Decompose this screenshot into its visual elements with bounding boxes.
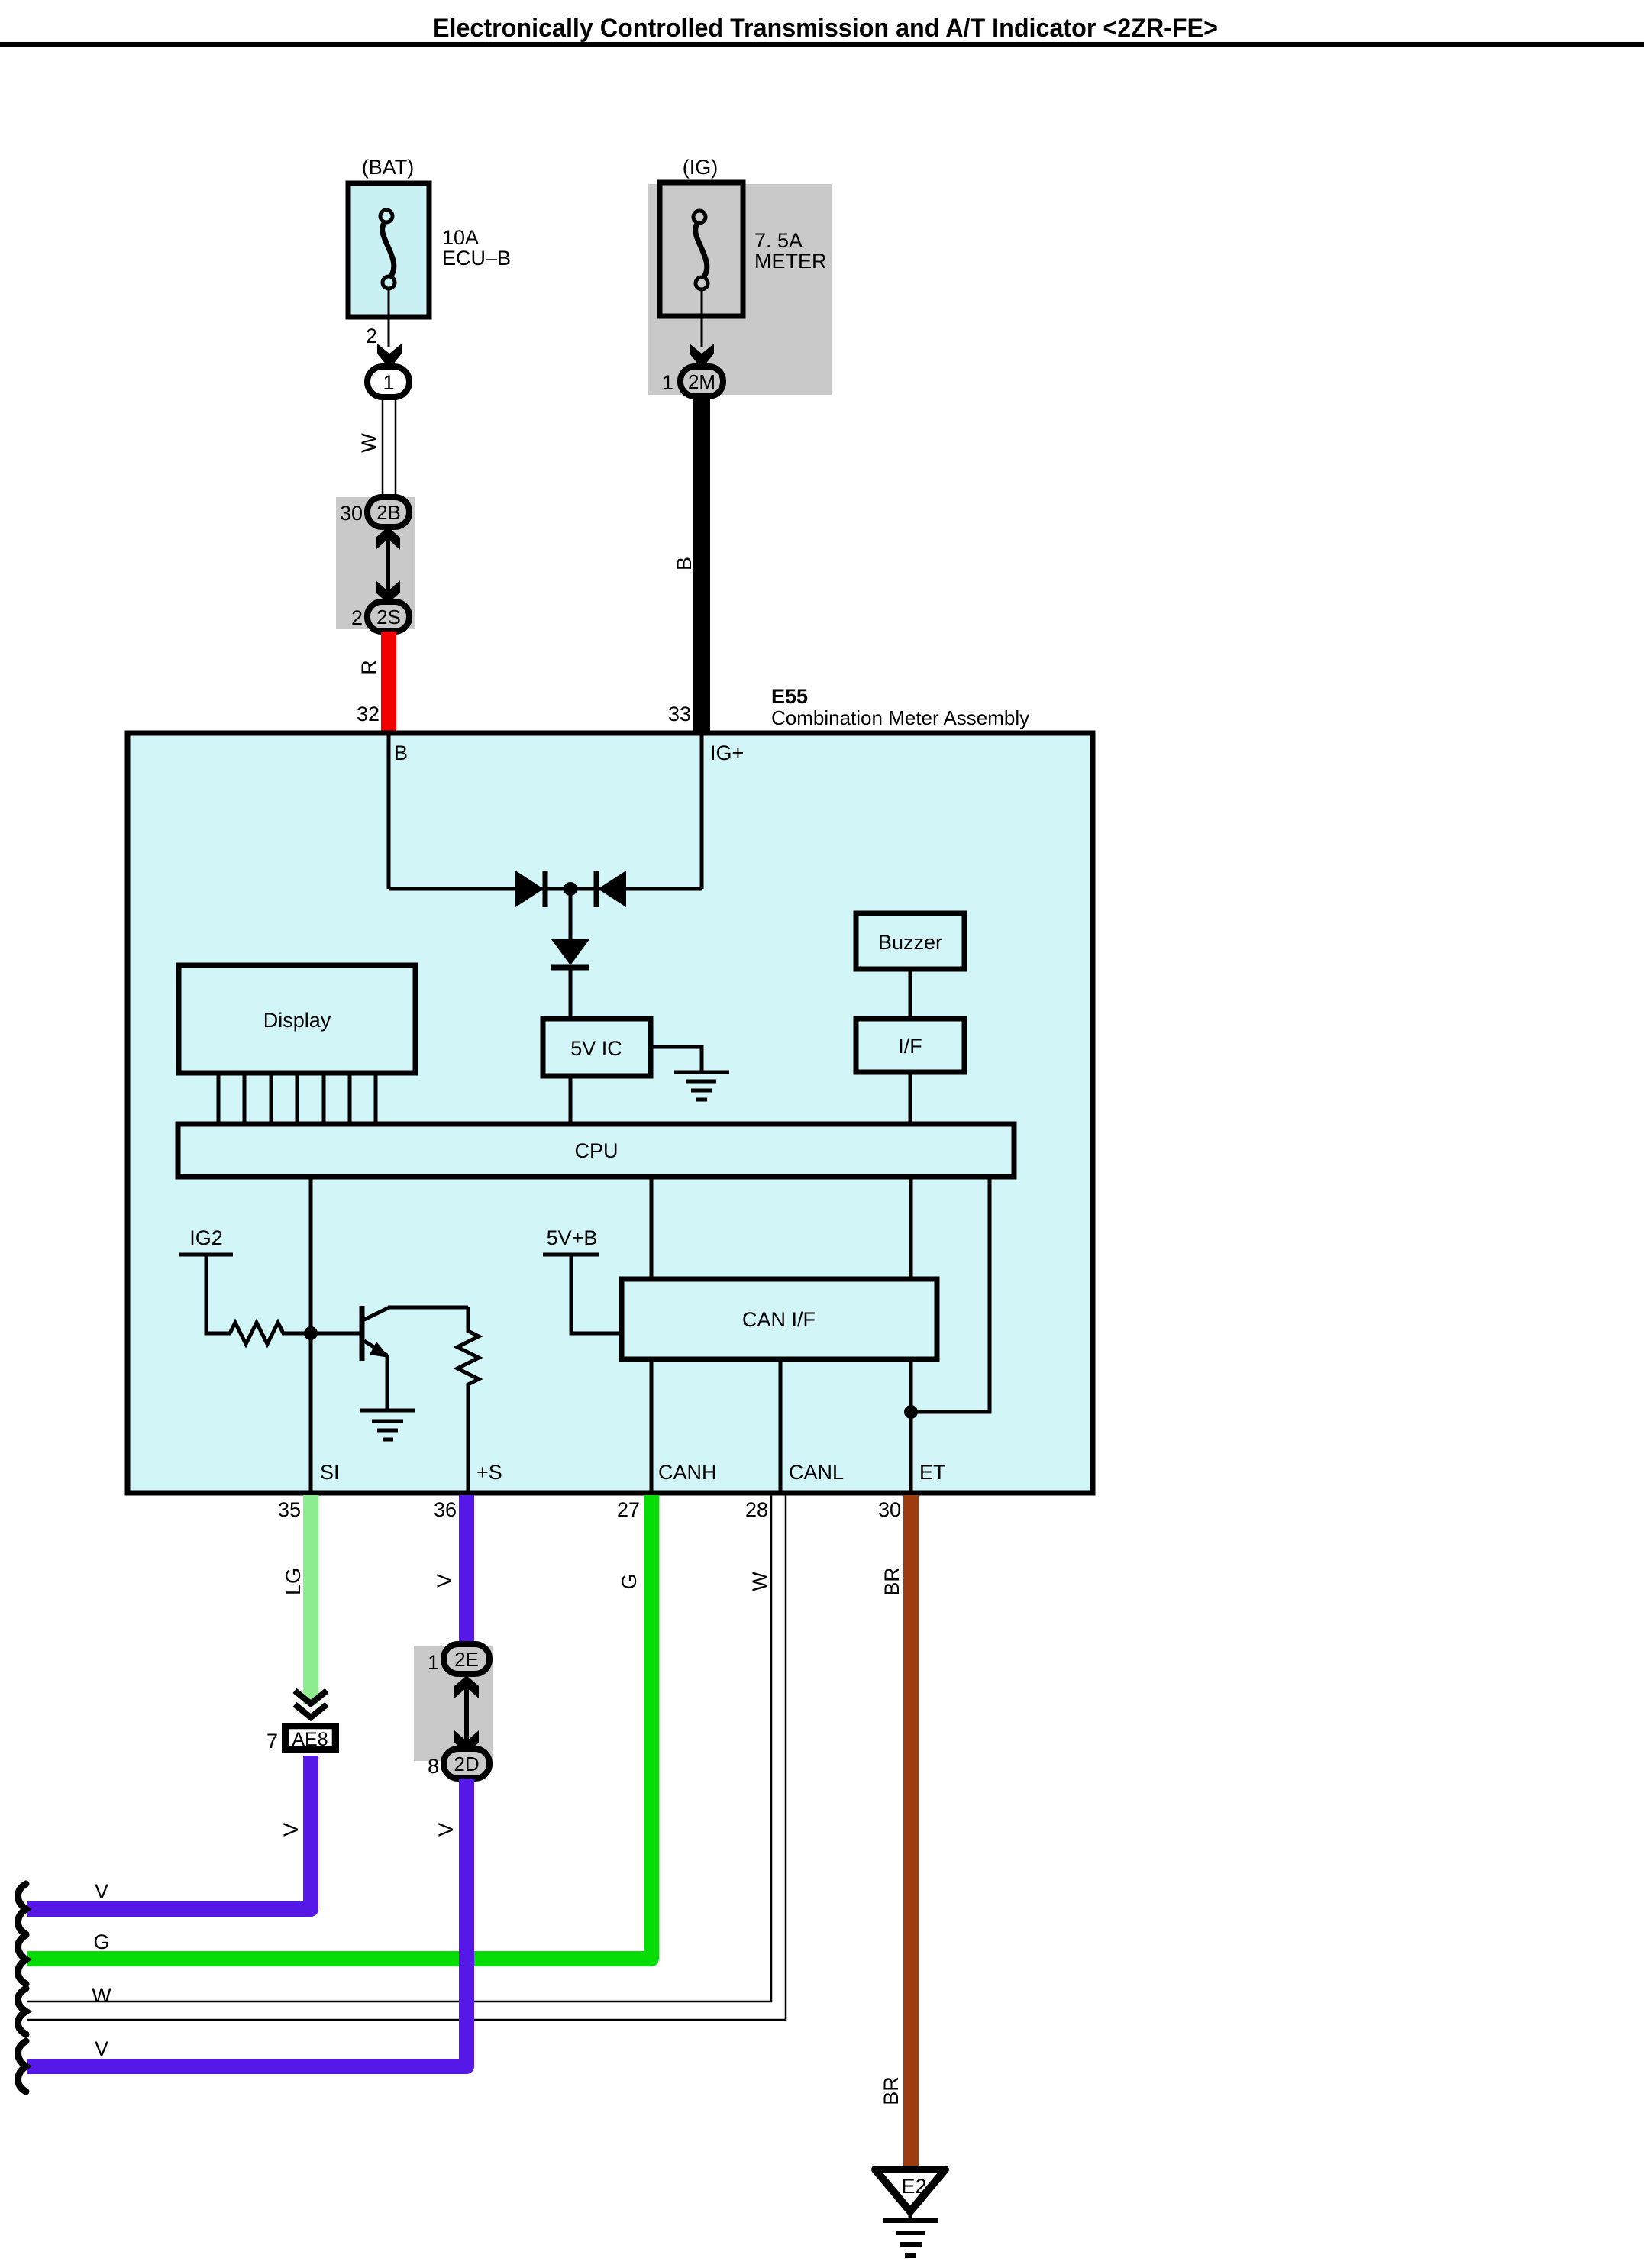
connector AE8 box (285, 1726, 336, 1750)
svg-text:32: 32 (357, 703, 380, 725)
Buzzer box (856, 913, 964, 969)
wire SI (CPU down to pin 35) (309, 1177, 313, 1491)
svg-text:METER: METER (754, 250, 827, 273)
svg-text:Buzzer: Buzzer (878, 931, 942, 954)
svg-text:W: W (92, 1984, 111, 2007)
svg-text:B: B (673, 557, 696, 570)
wire CPU right branch down (911, 1177, 990, 1412)
wire fuse to connector 2M (701, 289, 703, 347)
transistor Q1 (362, 1306, 389, 1361)
CPU box (178, 1124, 1014, 1177)
brace G (18, 1935, 27, 1984)
5V IC box (543, 1019, 651, 1076)
svg-text:CAN I/F: CAN I/F (742, 1308, 816, 1331)
svg-text:Electronically Controlled Tran: Electronically Controlled Transmission a… (433, 14, 1218, 43)
svg-text:BR: BR (880, 2076, 903, 2105)
AE8 chevron arrow (295, 1691, 327, 1717)
wire D3 to 5V IC (569, 970, 573, 1019)
svg-text:V: V (433, 1574, 456, 1588)
wire LG (pin 35 to AE8) (303, 1495, 318, 1704)
svg-text:2M: 2M (688, 370, 715, 393)
svg-text:2B: 2B (376, 501, 401, 524)
connector arrow down (377, 344, 402, 369)
svg-text:30: 30 (340, 502, 363, 525)
svg-text:5V IC: 5V IC (570, 1037, 622, 1060)
svg-text:W: W (357, 433, 380, 453)
inter-connector double arrow (2E/2D) (454, 1675, 479, 1753)
svg-text:R: R (357, 660, 380, 675)
svg-text:+S: +S (476, 1461, 502, 1484)
svg-text:V: V (95, 2037, 108, 2060)
I/F box (856, 1019, 964, 1072)
svg-text:10A: 10A (442, 226, 479, 249)
junction node between diodes (564, 882, 577, 896)
svg-text:7: 7 (266, 1730, 278, 1753)
IG2 power bar (179, 1253, 233, 1257)
svg-text:2: 2 (366, 325, 377, 347)
svg-text:B: B (394, 741, 408, 764)
svg-text:LG: LG (282, 1568, 305, 1595)
wire diode row horizontal (389, 887, 702, 891)
wire 5V IC to ground (651, 1047, 702, 1072)
ground E2 hatching (883, 2221, 938, 2256)
svg-text:2: 2 (351, 606, 363, 629)
svg-text:G: G (618, 1573, 641, 1589)
svg-text:G: G (93, 1930, 109, 1953)
svg-text:2S: 2S (376, 606, 401, 628)
svg-text:ECU–B: ECU–B (442, 247, 511, 270)
inter-connector double arrow (376, 527, 400, 603)
wire W double line (connector 1 to 2B) (383, 397, 396, 498)
svg-text:SI: SI (320, 1461, 340, 1484)
svg-text:1: 1 (662, 371, 673, 394)
svg-text:28: 28 (745, 1498, 768, 1521)
svg-text:Combination Meter Assembly: Combination Meter Assembly (771, 706, 1029, 729)
svg-text:1: 1 (428, 1651, 439, 1674)
svg-text:V: V (279, 1823, 302, 1837)
Display box (179, 965, 415, 1073)
wire Buzzer to I/F (909, 969, 912, 1019)
wire B black (2M to pin 33) (693, 396, 710, 731)
wire B inside (pin 32 down to diode row) (387, 735, 391, 889)
junction connector 2B/2S gray block (336, 497, 415, 629)
fuse ECU-B 10A body (348, 183, 429, 317)
svg-text:8: 8 (428, 1755, 439, 1778)
wire collector horizontal (388, 1306, 468, 1310)
wire W double line (pin 28 down, turn left to page edge) (27, 1495, 786, 2020)
wire junction down to diode D3 (569, 889, 573, 939)
svg-text:1: 1 (383, 371, 394, 394)
diode D3 (pointing down) (551, 939, 589, 968)
connector 2B oval (367, 497, 409, 527)
wire CPU to CAN I/F (left) (650, 1177, 654, 1279)
svg-text:CANL: CANL (789, 1461, 844, 1484)
svg-text:CPU: CPU (574, 1139, 618, 1162)
svg-text:E2: E2 (901, 2175, 926, 2198)
wire V (AE8 down, turn left to page edge) (27, 1756, 311, 1909)
diode D2 (anode right, pointing left) (596, 871, 626, 907)
wire V (pin 36 to 2E) (459, 1495, 474, 1648)
wire ET (CAN I/F to pin 30) (909, 1359, 913, 1491)
svg-text:CANH: CANH (658, 1461, 717, 1484)
CAN I/F box (622, 1279, 937, 1359)
svg-text:7. 5A: 7. 5A (754, 229, 803, 252)
connector 2M oval (680, 367, 723, 396)
wire CPU to CAN I/F (right) (909, 1177, 913, 1279)
svg-text:35: 35 (278, 1498, 301, 1521)
ground (transistor emitter) (360, 1410, 415, 1439)
wire CANH (CAN I/F to pin 27) (650, 1359, 654, 1491)
wire 5V+B to CAN I/F (571, 1256, 622, 1333)
connector 2S oval (367, 602, 409, 632)
svg-text:BR: BR (880, 1567, 903, 1596)
svg-text:(BAT): (BAT) (362, 156, 415, 179)
connector 2E oval (444, 1644, 489, 1674)
brace W (18, 1989, 27, 2034)
svg-text:V: V (434, 1823, 457, 1837)
wire resistor to junction (290, 1332, 360, 1336)
svg-text:2D: 2D (454, 1753, 479, 1775)
svg-text:Display: Display (263, 1009, 331, 1032)
connector 2D oval (444, 1749, 489, 1779)
svg-text:IG+: IG+ (710, 741, 744, 764)
connector 1 oval (367, 367, 409, 397)
svg-text:I/F: I/F (898, 1035, 922, 1058)
brace V (top) (18, 1884, 27, 1934)
wire BR (pin 30 to E2 ground) (903, 1495, 919, 2169)
svg-text:27: 27 (617, 1498, 640, 1521)
wire IG+ inside (pin 33 down to diode row) (700, 735, 704, 889)
wire CANL (CAN I/F to pin 28) (779, 1359, 783, 1491)
wire 5V IC down to CPU (569, 1076, 573, 1124)
junction node SI (304, 1326, 318, 1340)
wire V lower (2D down, turn left to page edge) (27, 1779, 467, 2066)
svg-text:ET: ET (919, 1461, 946, 1484)
brace V (lower) (18, 2041, 27, 2092)
svg-text:2E: 2E (454, 1648, 479, 1671)
resistor R1 (base) (225, 1323, 290, 1344)
display bus lines (218, 1073, 376, 1124)
title rule (0, 42, 1644, 47)
svg-text:V: V (95, 1880, 108, 1903)
svg-text:33: 33 (668, 703, 691, 725)
svg-text:IG2: IG2 (189, 1226, 223, 1249)
ground (5V IC) (674, 1072, 729, 1100)
svg-text:AE8: AE8 (292, 1729, 328, 1750)
wire G (pin 27 down, turn left to page edge) (27, 1495, 651, 1959)
connector arrow down (690, 344, 714, 369)
fuse METER 7.5A body (660, 183, 743, 316)
wire fuse to connector 1 (388, 289, 390, 347)
5V+B power bar (543, 1253, 599, 1257)
svg-text:W: W (748, 1572, 771, 1591)
junction node ET (904, 1405, 918, 1419)
svg-text:36: 36 (434, 1498, 457, 1521)
svg-text:E55: E55 (771, 685, 808, 708)
diode D1 (anode left, pointing right) (515, 871, 545, 907)
svg-text:(IG): (IG) (683, 156, 719, 179)
svg-text:5V+B: 5V+B (547, 1226, 598, 1249)
fuse METER gray block (648, 184, 832, 395)
svg-text:30: 30 (878, 1498, 901, 1521)
wire I/F to CPU (909, 1072, 912, 1124)
junction connector 2E/2D gray block (414, 1646, 493, 1761)
wire emitter down (386, 1355, 389, 1410)
ground E2 triangle (875, 2169, 945, 2221)
wire IG2 down (206, 1256, 225, 1333)
wire R red (2S to pin 32) (381, 632, 396, 731)
resistor R2 (+S pull) (457, 1307, 479, 1491)
